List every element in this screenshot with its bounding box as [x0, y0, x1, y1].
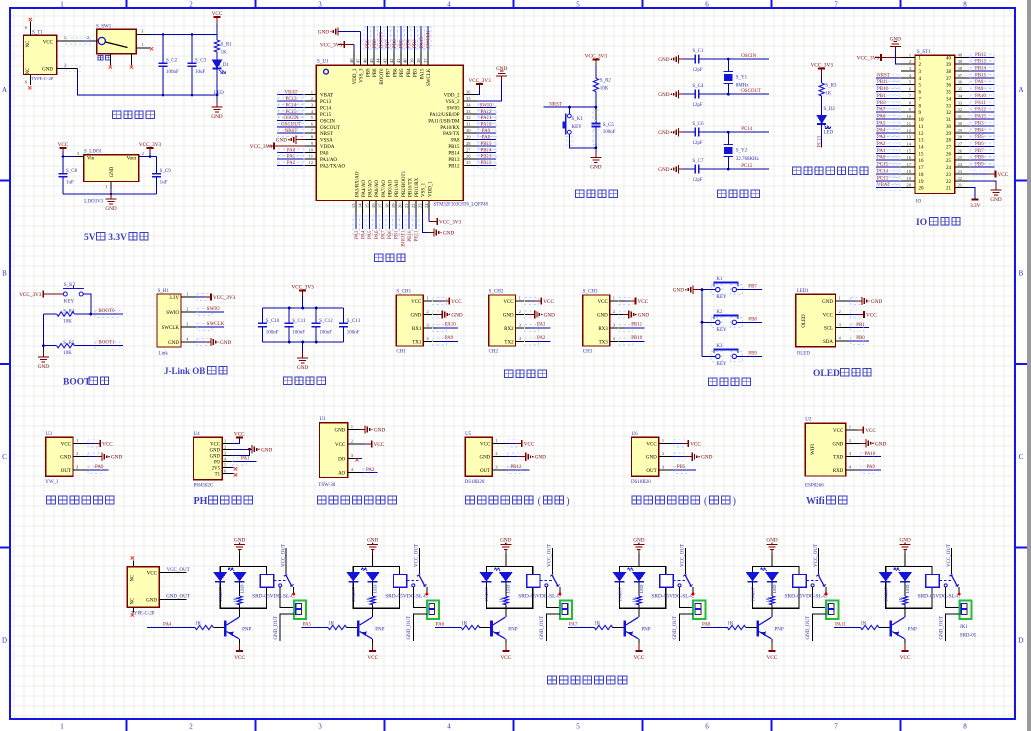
pin header S_ST1 IO expansion — [915, 55, 955, 193]
power ground GND (U1) — [359, 429, 366, 431]
svg-text:PA10/RX: PA10/RX — [440, 126, 460, 131]
svg-text:PB15: PB15 — [448, 145, 460, 150]
svg-text:LED: LED — [905, 584, 910, 594]
relay contact linkage dashed (unit 1) — [274, 580, 286, 582]
capacitor S_C5 100nF — [595, 107, 597, 123]
svg-text:VCC: VCC — [210, 442, 220, 447]
power port VCC_3V3 at ST1 pin 1 — [881, 56, 901, 58]
svg-text:VCC: VCC — [61, 442, 72, 447]
svg-text:PB4: PB4 — [407, 68, 412, 77]
svg-text:PB6: PB6 — [975, 142, 984, 147]
svg-text:LED: LED — [639, 584, 644, 594]
resistor 1K snubber (unit 4) — [636, 596, 641, 605]
svg-text:PA1: PA1 — [241, 457, 250, 462]
svg-text:36: 36 — [946, 84, 952, 89]
svg-text:VCC: VCC — [234, 431, 245, 437]
svg-text:1N4007: 1N4007 — [218, 586, 223, 602]
resistor S_R1 1K — [216, 35, 218, 41]
svg-text:18: 18 — [919, 173, 925, 178]
power port VCC (unit 2) — [372, 643, 374, 651]
output connector CON2 (unit 2) — [427, 600, 439, 619]
svg-text:15: 15 — [906, 148, 911, 153]
svg-text:PB5: PB5 — [677, 465, 686, 470]
relay contact linkage dashed (unit 5) — [806, 580, 818, 582]
svg-text:24: 24 — [424, 203, 429, 208]
net label PA8 base wire (unit 5) — [701, 627, 707, 629]
left net wires of S_ST1 — [876, 77, 901, 79]
relay coil SRD-05VDC-SL-C (unit 2) — [394, 575, 407, 588]
svg-text:KEY: KEY — [716, 328, 727, 333]
svg-text:S_C12: S_C12 — [319, 319, 333, 324]
wire LED to resistor (unit 5) — [771, 582, 773, 596]
svg-text:PNP: PNP — [908, 628, 917, 633]
svg-text:VCC_OUT: VCC_OUT — [281, 544, 286, 567]
svg-text:BOOT1: BOOT1 — [401, 230, 406, 247]
svg-text:GND: GND — [496, 66, 507, 72]
svg-text:BOOT0: BOOT0 — [380, 68, 385, 85]
svg-text:PC13: PC13 — [818, 136, 823, 148]
svg-text:16: 16 — [919, 159, 925, 164]
svg-text:NC: NC — [26, 68, 31, 75]
svg-text:20: 20 — [398, 203, 403, 208]
svg-text:TYPE-C-2P: TYPE-C-2P — [31, 76, 54, 81]
caption zhu-xin-pian (main chip) — [375, 254, 383, 262]
svg-text:PA0: PA0 — [320, 151, 329, 156]
power ground GND (crystal S_C7) — [678, 165, 680, 173]
relay coil SRD-05VDC-SL-C (unit 3) — [527, 575, 540, 588]
svg-text:VCC: VCC — [900, 655, 911, 661]
svg-text:PB5: PB5 — [975, 135, 984, 140]
svg-text:PA2: PA2 — [366, 468, 375, 473]
svg-text:10K: 10K — [63, 351, 72, 356]
svg-text:PA12: PA12 — [975, 108, 986, 113]
net label PA5 base wire (unit 2) — [302, 627, 308, 629]
svg-text:28: 28 — [946, 139, 952, 144]
svg-text:SRD-05VDC-SL-C: SRD-05VDC-SL-C — [651, 594, 694, 600]
svg-text:SWCLK: SWCLK — [207, 322, 225, 327]
power ground GND (reset) — [595, 153, 597, 158]
svg-text:SWCLK: SWCLK — [427, 68, 432, 86]
relay contact linkage dashed (unit 6) — [939, 580, 951, 582]
wire to net label OSCIN — [728, 58, 769, 60]
snubber frame (unit 4) — [620, 566, 666, 608]
svg-text:PB0: PB0 — [877, 101, 886, 106]
net label PA9 (U2 RXD) — [860, 469, 881, 471]
svg-text:PB11/RX: PB11/RX — [415, 177, 420, 197]
svg-text:PC14: PC14 — [877, 169, 889, 174]
power port VCC (U6) — [682, 442, 688, 444]
wire VDD_3 to VCC_3V3 (top) — [353, 45, 355, 52]
svg-text:YW_J: YW_J — [45, 480, 58, 485]
svg-text:GND: GND — [234, 538, 245, 544]
svg-text:PA5/AO: PA5/AO — [369, 180, 374, 197]
svg-text:GND: GND — [110, 166, 115, 177]
svg-text:S_C2: S_C2 — [166, 59, 178, 64]
svg-text:32: 32 — [946, 111, 952, 116]
net label PA2 (U1 AO) — [362, 472, 378, 474]
caption ye-wei-jian-ce-mo-kuai (liquid level module) — [47, 496, 56, 504]
svg-text:S_K1: S_K1 — [572, 117, 584, 122]
wire switch to VCC node — [150, 34, 217, 36]
svg-text:1N4007: 1N4007 — [750, 586, 755, 602]
connector TYPE-C-2P (relay power input) — [127, 567, 159, 608]
svg-text:S_C1: S_C1 — [692, 49, 704, 54]
svg-text:5: 5 — [576, 1, 580, 9]
relay coil SRD-05VDC-SL-C (unit 5) — [793, 575, 806, 588]
svg-text:S_C11: S_C11 — [292, 319, 306, 324]
svg-text:12pF: 12pF — [692, 141, 703, 146]
wire U4 pin1 to VCC — [231, 438, 239, 444]
no-connect U4 pin5 — [231, 466, 233, 468]
power port VCC_3V3 (boot) — [42, 291, 44, 298]
svg-text:S_R3: S_R3 — [825, 84, 837, 89]
svg-text:GND_OUT: GND_OUT — [673, 616, 678, 640]
svg-text:GND_OUT: GND_OUT — [407, 616, 412, 640]
transistor PNP (unit 4) — [623, 621, 626, 637]
caption lv-bo-dian-lu (filter circuit) — [284, 377, 292, 385]
svg-text:PA6: PA6 — [436, 623, 445, 628]
bottom pins 13-24 of S_U1 — [355, 201, 357, 215]
power ground at VSS_1 — [428, 232, 435, 234]
svg-text:NC: NC — [131, 575, 136, 582]
svg-text:GND: GND — [276, 138, 287, 144]
power ground GND (filter) — [302, 353, 304, 358]
svg-text:36: 36 — [958, 80, 963, 85]
svg-text:SRD-05: SRD-05 — [960, 634, 977, 639]
wire to net label PC15 — [728, 168, 769, 170]
svg-text:VCC_3V3: VCC_3V3 — [320, 43, 343, 49]
capacitor S_C7 12pF — [683, 168, 695, 170]
svg-text:PC15: PC15 — [877, 163, 889, 168]
svg-text:23: 23 — [946, 173, 952, 178]
svg-text:U3: U3 — [46, 432, 53, 437]
svg-text:100nF: 100nF — [347, 330, 360, 335]
svg-text:29: 29 — [946, 132, 952, 137]
svg-text:PB8: PB8 — [975, 156, 984, 161]
svg-text:B: B — [1019, 270, 1024, 278]
output connector CON2 (unit 5) — [826, 600, 838, 619]
svg-text:1uF: 1uF — [66, 181, 74, 186]
svg-text:48: 48 — [349, 58, 354, 63]
svg-text:3.3V: 3.3V — [169, 296, 179, 301]
svg-text:13: 13 — [351, 203, 356, 208]
svg-text:1K: 1K — [499, 596, 504, 602]
svg-text:11: 11 — [919, 125, 924, 130]
crystal S_Y1 8MHz — [727, 59, 729, 71]
svg-text:GND: GND — [899, 538, 910, 544]
svg-text:18: 18 — [384, 203, 389, 208]
zone column dividers bottom — [126, 719, 128, 731]
svg-text:VCC: VCC — [480, 442, 491, 447]
svg-text:GND: GND — [990, 197, 1001, 203]
wire emitter to VCC (unit 5) — [771, 639, 773, 643]
wire collector to snubber (unit 4) — [638, 608, 640, 617]
caption cheng-xu-yun-xing-zhi-shi-deng (run indicator) — [793, 167, 801, 175]
wire emitter to VCC (unit 6) — [904, 639, 906, 643]
svg-text:1N4007: 1N4007 — [617, 586, 622, 602]
svg-text:PB13: PB13 — [975, 60, 987, 65]
svg-text:NRST: NRST — [285, 129, 298, 134]
left pins 1-12 of S_U1 — [305, 94, 316, 96]
svg-text:PA5: PA5 — [877, 121, 886, 126]
resistor S_R2 10K — [593, 78, 598, 91]
svg-text:PA11: PA11 — [975, 101, 986, 106]
power port VCC (unit 5) — [771, 643, 773, 651]
svg-text:VCC: VCC — [102, 441, 113, 447]
svg-text:NRST: NRST — [877, 73, 890, 78]
wire LED to resistor (unit 6) — [904, 582, 906, 596]
relay NO terminal with marker (unit 6) — [958, 587, 960, 592]
svg-text:PNP: PNP — [641, 628, 650, 633]
svg-text:13: 13 — [906, 135, 911, 140]
wire U6 pin1 to VCC — [673, 442, 689, 444]
wire contact to output connector (unit 6) — [946, 587, 960, 608]
svg-text:A: A — [1018, 86, 1023, 94]
wire U3 pin2 to GND — [87, 456, 101, 458]
svg-text:NRST: NRST — [320, 132, 333, 137]
wire to net label PC13 (vertical) — [821, 128, 823, 148]
svg-text:PB5: PB5 — [400, 68, 405, 77]
net label GND_OUT wire (unit 4) — [680, 614, 694, 641]
svg-text:VCC: VCC — [598, 300, 609, 305]
svg-text:LED: LED — [373, 584, 378, 594]
connector S_CH2 serial port — [489, 295, 516, 346]
wire contact to output connector (unit 2) — [413, 587, 427, 608]
svg-text:PB14: PB14 — [480, 148, 492, 153]
filter bottom rail — [263, 341, 344, 343]
power port VCC (S_CH3) — [630, 300, 636, 302]
svg-text:GND: GND — [211, 114, 222, 120]
svg-text:VCC: VCC — [451, 299, 462, 305]
relay contact lever (unit 3) — [552, 574, 559, 586]
filter top rail — [263, 307, 344, 309]
wire contact to output connector (unit 3) — [546, 587, 560, 608]
svg-text:VCC: VCC — [43, 41, 54, 46]
svg-text:S_U1: S_U1 — [317, 59, 329, 65]
svg-text:GND: GND — [503, 314, 514, 319]
svg-text:PA6: PA6 — [877, 115, 886, 120]
svg-text:RX3: RX3 — [598, 327, 608, 332]
switch S_SW1 — [97, 29, 137, 54]
svg-text:DO: DO — [338, 457, 346, 462]
svg-text:26: 26 — [466, 154, 471, 159]
wire GND to snubber frame (unit 2) — [372, 553, 374, 566]
svg-text:15: 15 — [364, 203, 369, 208]
caption chuan-kou-dian-lu (serial circuit) — [505, 370, 513, 378]
svg-text:PC15: PC15 — [741, 164, 753, 169]
svg-text:13: 13 — [919, 139, 925, 144]
net label SWCLK (jlink) — [196, 326, 224, 328]
svg-text:PA4/AO: PA4/AO — [362, 180, 367, 197]
svg-text:GND: GND — [318, 30, 329, 36]
svg-text:4: 4 — [447, 1, 451, 9]
svg-text:VCC: VCC — [638, 299, 649, 305]
svg-text:PB6: PB6 — [393, 68, 398, 77]
svg-text:VCC_3V3: VCC_3V3 — [585, 53, 608, 59]
diode 1N4007 (unit 5) — [746, 572, 760, 582]
svg-text:16: 16 — [371, 203, 376, 208]
svg-text:SRD-05VDC-SL-C: SRD-05VDC-SL-C — [252, 594, 295, 600]
svg-text:GND: GND — [544, 313, 555, 319]
svg-text:39: 39 — [409, 58, 414, 63]
svg-text:32: 32 — [958, 107, 963, 112]
svg-text:34: 34 — [946, 97, 952, 102]
power ground GND (U6) — [686, 456, 693, 458]
net label PA6 base wire (unit 3) — [435, 627, 441, 629]
net label PA7 base wire (unit 4) — [568, 627, 574, 629]
svg-text:33: 33 — [466, 109, 471, 114]
svg-text:S_CH1: S_CH1 — [396, 290, 411, 295]
svg-text:TX2: TX2 — [504, 341, 514, 346]
relay coil SRD-05VDC-SL-C (unit 4) — [660, 575, 673, 588]
svg-text:GND: GND — [633, 538, 644, 544]
svg-text:10: 10 — [308, 147, 313, 152]
svg-text:VCC_OUT: VCC_OUT — [681, 544, 686, 567]
svg-text:GND: GND — [646, 456, 657, 461]
svg-text:6: 6 — [705, 723, 709, 731]
svg-text:GND: GND — [60, 456, 71, 461]
power port VCC (U5) — [516, 442, 522, 444]
svg-text:GND: GND — [42, 68, 53, 73]
svg-text:WIFI: WIFI — [811, 444, 816, 455]
svg-text:GND_OUT: GND_OUT — [166, 595, 190, 600]
module U2 ESP8266 WIFI — [805, 423, 846, 476]
svg-text:14: 14 — [906, 141, 911, 146]
svg-text:VSS_2: VSS_2 — [445, 100, 460, 105]
wire S_CH2 pin2 to GND — [530, 314, 534, 316]
svg-text:1K: 1K — [765, 596, 770, 602]
svg-text:S_C7: S_C7 — [692, 159, 704, 164]
svg-text:VDD_3: VDD_3 — [353, 68, 358, 84]
svg-text:VCC: VCC — [147, 572, 158, 577]
relay contact lever (unit 4) — [685, 574, 692, 586]
svg-text:25: 25 — [466, 160, 471, 165]
base resistor 1K (unit 1) — [195, 625, 213, 629]
svg-text:PA15: PA15 — [420, 68, 425, 79]
connector S_H1 J-Link — [157, 294, 181, 347]
svg-text:JK1: JK1 — [960, 625, 969, 630]
svg-text:DS18B20: DS18B20 — [631, 480, 651, 485]
svg-text:VCC: VCC — [234, 655, 245, 661]
svg-text:D: D — [2, 637, 7, 645]
svg-text:NC: NC — [131, 598, 136, 605]
svg-text:10: 10 — [906, 114, 911, 119]
svg-text:GND: GND — [832, 442, 843, 447]
svg-text:26: 26 — [946, 152, 952, 157]
resistor 1K snubber (unit 2) — [370, 596, 375, 605]
svg-text:OLED: OLED — [802, 314, 807, 328]
no-connect U1 DO — [355, 457, 361, 459]
svg-text:PA2: PA2 — [877, 142, 886, 147]
svg-text:VSSA: VSSA — [320, 139, 333, 144]
net label BOOT0 — [91, 313, 123, 315]
wire U2 pin1 to VCC — [860, 429, 863, 431]
wire LED to resistor (unit 2) — [372, 582, 374, 596]
svg-text:GND: GND — [220, 340, 231, 346]
svg-text:SDA: SDA — [823, 340, 833, 345]
svg-text:OUT: OUT — [61, 469, 71, 474]
regulator S_LDO1 LDO3V3 — [84, 155, 139, 182]
svg-text:PB8: PB8 — [373, 68, 378, 77]
wire contact to output connector (unit 5) — [813, 587, 827, 608]
LDO pin 1 (GND) — [110, 182, 112, 190]
relay contact linkage dashed (unit 3) — [540, 580, 552, 582]
caption fu-wei-dian-lu (reset circuit) — [576, 190, 584, 198]
power ground GND (crystal S_C4) — [678, 90, 680, 98]
top pins 48-37 of S_U1 — [353, 51, 355, 65]
net label PA3 (S_CH2) — [530, 327, 551, 329]
wire U3 pin1 to VCC — [87, 442, 100, 444]
power port VCC (U3) — [94, 442, 100, 444]
svg-text:TX1: TX1 — [412, 341, 422, 346]
svg-text:VCC_3V3: VCC_3V3 — [857, 55, 880, 61]
svg-text:OUT: OUT — [646, 469, 656, 474]
svg-text:14: 14 — [919, 145, 925, 150]
power port VCC (unit 4) — [638, 643, 640, 651]
svg-text:): ) — [733, 496, 736, 507]
svg-text:PA10: PA10 — [975, 94, 986, 99]
svg-text:RX1: RX1 — [412, 327, 422, 332]
caption wen-du-jian-ce-mo-kuai (shui-chi) (temp pool) — [632, 496, 641, 504]
svg-text:24: 24 — [958, 162, 963, 167]
net label VCC_OUT wire (unit 6) — [951, 548, 953, 574]
svg-text:GND: GND — [871, 299, 882, 305]
svg-text:39: 39 — [946, 63, 952, 68]
capacitor S_C9 1uF — [156, 157, 158, 174]
svg-text:PB0: PB0 — [856, 336, 865, 341]
svg-text:PB4: PB4 — [975, 128, 984, 133]
svg-text:VCC_3V3: VCC_3V3 — [139, 142, 162, 148]
svg-text:37: 37 — [423, 58, 428, 63]
wire LDO Vout to C9 — [139, 156, 157, 158]
svg-text:GND: GND — [451, 313, 462, 319]
svg-text:PA6/AO: PA6/AO — [375, 180, 380, 197]
svg-text:VCC: VCC — [646, 442, 657, 447]
capacitor S_C13 100nF — [343, 308, 345, 323]
bottom ground rail of power circuit — [77, 68, 217, 95]
net label PA11 base wire (unit 6) — [834, 627, 840, 629]
diode 1N4007 (unit 3) — [479, 572, 493, 582]
connector S_T1 TYPE-C-2P — [24, 35, 57, 74]
svg-text:GND: GND — [168, 341, 179, 346]
wire LED to resistor (unit 3) — [505, 582, 507, 596]
svg-text:100nF: 100nF — [166, 70, 179, 75]
wire collector to snubber (unit 6) — [904, 608, 906, 617]
svg-text:PB7: PB7 — [387, 68, 392, 77]
power ground GND (U5) — [520, 456, 527, 458]
svg-text:VCC: VCC — [634, 655, 645, 661]
svg-text:19: 19 — [906, 176, 911, 181]
svg-text:U1: U1 — [320, 417, 327, 422]
svg-text:1K: 1K — [861, 621, 868, 626]
svg-text:GND_OUT: GND_OUT — [274, 616, 279, 640]
svg-text:32.768KHz: 32.768KHz — [736, 157, 760, 162]
wire emitter to VCC (unit 2) — [372, 639, 374, 643]
svg-text:VCC: VCC — [367, 655, 378, 661]
net label VCC_OUT wire — [159, 572, 186, 574]
net label PB10 (S_CH3) — [624, 341, 645, 343]
svg-text:1: 1 — [60, 723, 64, 731]
output connector CON2 (unit 3) — [560, 600, 572, 619]
flyback LED (unit 5) — [765, 572, 779, 582]
power ground GND (S_CH1) — [436, 314, 443, 316]
svg-text:VCC_3V3: VCC_3V3 — [250, 144, 273, 150]
svg-text:44: 44 — [376, 58, 381, 63]
svg-text:BOOT1: BOOT1 — [98, 341, 115, 346]
svg-text:PH4502C: PH4502C — [194, 484, 214, 489]
svg-text:PA1/AO: PA1/AO — [320, 158, 337, 163]
svg-text:S_C10: S_C10 — [266, 319, 280, 324]
